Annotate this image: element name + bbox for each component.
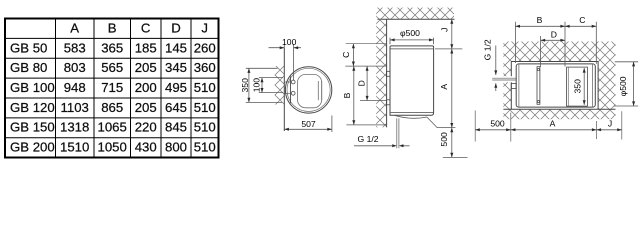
svg-text:510: 510	[194, 120, 216, 135]
front view: dimension B (left)	[342, 66, 355, 125]
table row GB 50	[10, 40, 216, 55]
svg-text:J: J	[201, 20, 208, 35]
svg-text:C: C	[141, 20, 151, 35]
svg-text:345: 345	[165, 60, 187, 75]
svg-text:D: D	[171, 20, 181, 35]
table row GB 100	[10, 80, 216, 95]
svg-text:205: 205	[135, 60, 157, 75]
top view: tank inner circle	[287, 68, 330, 111]
svg-text:800: 800	[165, 140, 187, 155]
svg-text:565: 565	[101, 60, 123, 75]
front view: dimension G 1/2 (bottom pipe)	[354, 134, 410, 147]
svg-text:430: 430	[135, 140, 157, 155]
table row GB 200	[10, 140, 216, 155]
top view: anchor bolt upper	[284, 80, 295, 84]
front view: tank body	[390, 46, 434, 115]
svg-text:645: 645	[165, 100, 187, 115]
svg-text:507: 507	[301, 119, 316, 129]
front view: tank top extension line	[435, 48, 462, 50]
svg-text:510: 510	[194, 80, 216, 95]
svg-text:GB 150: GB 150	[10, 120, 55, 135]
top view: inner right strip	[318, 81, 321, 100]
svg-text:510: 510	[194, 140, 216, 155]
table row GB 120	[10, 100, 216, 115]
front view: dimension C (left)	[341, 44, 355, 66]
side view: mounting rail	[537, 67, 540, 105]
svg-text:C: C	[579, 15, 585, 25]
side view: dimension B (top)	[515, 15, 565, 63]
svg-text:145: 145	[165, 40, 187, 55]
svg-text:B: B	[108, 20, 117, 35]
svg-text:J: J	[608, 118, 612, 128]
svg-text:495: 495	[165, 80, 187, 95]
side view: tank left seam	[518, 64, 520, 107]
svg-text:1065: 1065	[98, 120, 127, 135]
svg-text:500: 500	[439, 132, 449, 147]
svg-text:845: 845	[165, 120, 187, 135]
svg-text:100: 100	[252, 78, 262, 93]
svg-text:B: B	[537, 15, 543, 25]
svg-text:GB 50: GB 50	[10, 40, 47, 55]
table row GB 150	[10, 120, 216, 135]
side view: dimension 350 (inside housing)	[573, 68, 586, 105]
front view: dimension J (right top)	[440, 19, 454, 49]
svg-text:GB 80: GB 80	[10, 60, 47, 75]
front view: dimension A (right middle)	[439, 49, 453, 128]
top view: flat mounting face chord	[290, 77, 292, 104]
side view: mounting bracket	[511, 83, 516, 88]
side view: bottom extension lines	[475, 111, 622, 142]
top view: dimension 100 (left, bolts spacing)	[252, 78, 284, 93]
svg-text:510: 510	[194, 100, 216, 115]
svg-text:J: J	[440, 28, 450, 32]
top view: wall line	[283, 48, 285, 131]
svg-text:365: 365	[101, 40, 123, 55]
svg-text:350: 350	[240, 78, 250, 93]
front view: wall hatch	[376, 19, 386, 127]
side view: tank body	[516, 64, 595, 107]
front view: mounting bracket lower	[386, 100, 390, 105]
svg-text:260: 260	[194, 40, 216, 55]
side view: dimension G 1/2	[482, 39, 497, 91]
top view: dimension 507 (bottom)	[284, 116, 332, 133]
svg-text:185: 185	[135, 40, 157, 55]
side view: dimension D	[541, 29, 565, 67]
front view: bottom cover	[394, 115, 437, 127]
side view: tank right seam	[592, 64, 594, 107]
front view: ceiling hatch	[376, 8, 454, 20]
front view: dimension D (left)	[357, 66, 369, 100]
svg-text:B: B	[342, 92, 352, 98]
table row GB 80	[10, 60, 216, 75]
svg-text:GB 200: GB 200	[10, 140, 55, 155]
front view: dimension 500 (right bottom)	[439, 128, 454, 158]
top view: wall hatch	[275, 66, 285, 105]
svg-text:A: A	[439, 84, 449, 90]
svg-text:948: 948	[64, 80, 86, 95]
svg-text:C: C	[341, 52, 351, 58]
top view: dimension 350 (left)	[240, 68, 282, 102]
svg-text:1103: 1103	[61, 100, 89, 115]
side view: dimension 500 (bottom left)	[475, 118, 511, 131]
svg-text:A: A	[70, 20, 79, 35]
top view: tank outer circle	[285, 67, 331, 113]
svg-text:φ500: φ500	[618, 76, 628, 96]
side view: niche hatch top band	[503, 42, 615, 120]
svg-text:GB 100: GB 100	[10, 80, 55, 95]
front view: floor tick	[443, 156, 468, 158]
svg-text:1510: 1510	[60, 140, 89, 155]
svg-text:GB 120: GB 120	[10, 100, 55, 115]
top view: dimension 100 (wall offset, top)	[269, 37, 302, 80]
table grid	[5, 19, 219, 158]
top view: anchor bolt lower	[284, 91, 295, 95]
side view: dimension A (bottom)	[511, 118, 597, 131]
svg-text:φ500: φ500	[400, 28, 420, 38]
svg-text:500: 500	[490, 118, 505, 128]
top view: inner tank rounded square	[298, 74, 322, 107]
svg-text:715: 715	[101, 80, 123, 95]
svg-text:360: 360	[194, 60, 216, 75]
side view: dimension J (bottom right)	[597, 118, 622, 131]
svg-text:200: 200	[135, 80, 157, 95]
svg-text:A: A	[550, 118, 556, 128]
side view: niche inner surface lines	[503, 62, 615, 110]
svg-text:220: 220	[135, 120, 157, 135]
front view: tank bottom extension line	[437, 127, 455, 129]
front view: inlet pipe	[397, 118, 399, 148]
side view: element housing	[567, 67, 588, 106]
side view: pipe through wall	[492, 78, 516, 80]
svg-text:G 1/2: G 1/2	[482, 39, 492, 60]
svg-text:G 1/2: G 1/2	[358, 134, 379, 144]
svg-text:1050: 1050	[98, 140, 127, 155]
svg-text:100: 100	[282, 37, 297, 47]
svg-text:803: 803	[64, 60, 86, 75]
svg-text:205: 205	[135, 100, 157, 115]
front view: left extension lines	[345, 44, 386, 125]
front view: mounting bracket upper	[386, 71, 390, 76]
svg-text:865: 865	[101, 100, 123, 115]
table header row	[70, 20, 208, 35]
svg-text:583: 583	[64, 40, 86, 55]
svg-text:D: D	[357, 80, 367, 86]
side view: dimension C (top)	[565, 15, 596, 66]
front view: dimension phi500 (top)	[390, 28, 434, 44]
svg-text:1318: 1318	[60, 120, 89, 135]
svg-text:350: 350	[573, 79, 583, 94]
side view: dimension phi500 (right)	[614, 62, 638, 106]
svg-text:D: D	[551, 29, 557, 39]
